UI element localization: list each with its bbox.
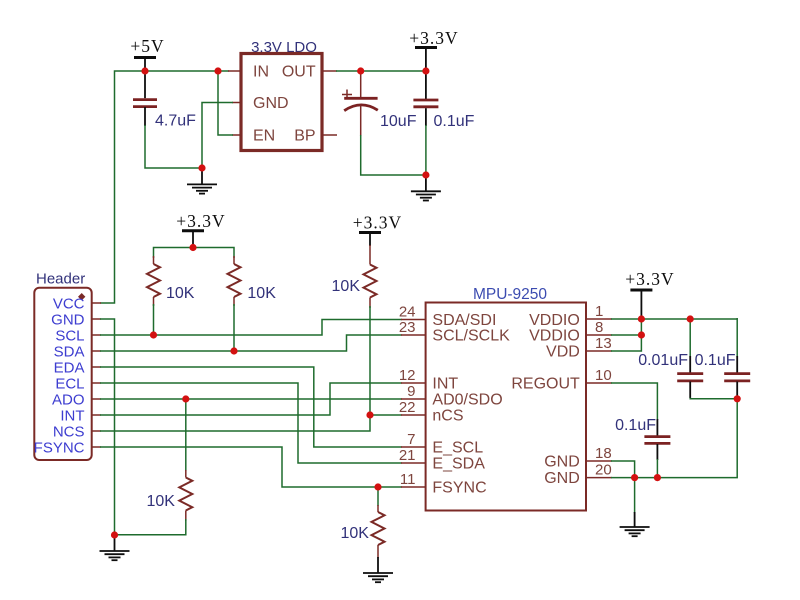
svg-text:+3.3V: +3.3V [176,211,225,231]
power +3.3V (right, VDDIO) [625,269,674,319]
resistor R2 10K (SDA pullup) [228,256,277,306]
svg-text:10K: 10K [341,525,370,542]
wire SCL to MPU pin 24 [100,320,402,336]
node bottom gnd [111,531,118,538]
svg-text:4.7uF: 4.7uF [155,113,196,130]
svg-text:GND: GND [544,470,580,487]
wire GND from header down to bottom ground [100,319,115,535]
capacitor C2 10uF top lead [360,71,362,98]
svg-text:24: 24 [399,304,416,321]
power +3.3V (top, above C3) [409,28,458,71]
svg-text:NCS: NCS [53,423,85,440]
wire VDD pin 13 to rail [611,318,641,351]
MPU right pin stubs [586,319,612,478]
wire ADO to MPU pin 9 [100,398,402,400]
svg-text:+3.3V: +3.3V [353,213,402,233]
svg-text:VDD: VDD [546,344,580,361]
power +3.3V (mid-left pullups) [176,211,225,248]
svg-text:10K: 10K [247,285,276,302]
resistor R4 10K (ADO pulldown) [147,399,193,521]
wire GND rail down to ground [634,478,636,513]
node OUT/C2 [357,67,364,74]
svg-text:Header: Header [36,271,85,288]
node R5/FSYNC [374,483,381,490]
svg-text:10: 10 [595,367,612,384]
svg-text:1: 1 [595,303,603,320]
wire NCS to MPU pin 22 [100,415,402,431]
MPU left pin numbers [399,304,416,489]
wire C6 bottom to GND rail [656,444,658,460]
svg-text:9: 9 [407,383,415,400]
svg-text:0.1uF: 0.1uF [615,417,656,434]
svg-text:10K: 10K [332,278,361,295]
capacitor C5 0.1uF [695,352,751,381]
svg-text:SDA/SDI: SDA/SDI [432,312,496,329]
power +5V [130,36,164,71]
node OUT/C3/+3.3V [422,67,429,74]
svg-text:INT: INT [432,376,458,393]
ground right [620,512,650,536]
svg-text:+5V: +5V [130,36,164,56]
node C2/C3 gnd [422,171,429,178]
svg-text:REGOUT: REGOUT [511,376,580,393]
svg-text:nCS: nCS [432,408,463,425]
IC U2 MPU-9250 box [426,286,586,511]
wire FSYNC to MPU pin 11 [100,447,402,487]
wire LDO OUT to +3.3V node [336,70,426,72]
svg-text:SDA: SDA [54,343,85,360]
node +3.3V pullup rail [189,244,196,251]
wire pullup rail [154,248,235,259]
regulator U1 3.3V LDO box [241,39,322,151]
wire R2 bottom to SDA net [233,304,235,351]
wire R1 bottom to SCL net [153,304,155,335]
wire INT to MPU pin 12 [100,383,402,415]
svg-text:22: 22 [399,399,416,416]
svg-text:VDDIO: VDDIO [529,312,580,329]
svg-text:INT: INT [60,407,84,424]
wire GND pin 18 down to GND rail [611,461,635,478]
svg-text:GND: GND [544,454,580,471]
capacitor C6 0.1uF [615,417,670,443]
pin EN stub [232,134,241,136]
svg-text:+3.3V: +3.3V [409,28,458,48]
wire net +5V: rail from header VCC up and across to LDO IN [100,71,229,303]
svg-text:GND: GND [51,311,85,328]
svg-text:MPU-9250: MPU-9250 [473,286,547,303]
node R1/SCL [150,331,157,338]
node GND18 [631,474,638,481]
svg-text:EN: EN [253,128,275,145]
node VDDIO1/+3.3V [638,315,645,322]
wire LDO GND to ground node [202,103,233,169]
capacitor C5 0.1uF top lead [736,318,738,357]
resistor R5 10K (FSYNC pulldown) [341,487,385,558]
wire VDDIO pin 1 rail [611,318,737,320]
svg-text:10uF: 10uF [380,113,417,130]
header pin stubs [92,303,101,447]
node +5V/C1 [141,67,148,74]
ground below C3 [411,175,441,201]
wire C1 bottom to LDO ground node [144,107,146,126]
svg-text:GND: GND [253,95,289,112]
capacitor C1 top lead [144,71,146,98]
capacitor C4 0.01uF [638,352,703,381]
capacitor C1 4.7uF [133,100,196,130]
svg-text:ADO: ADO [52,391,85,408]
node R2/SDA [230,347,237,354]
svg-text:SCL/SCLK: SCL/SCLK [432,328,510,345]
capacitor C4 0.01uF top lead [689,319,691,357]
wire C2 bottom to ground node [360,106,362,137]
svg-text:+3.3V: +3.3V [625,269,674,289]
wire EDA to MPU pin 7 [100,367,402,447]
wire C4 bottom to gnd rail [689,382,691,399]
svg-text:23: 23 [399,319,416,336]
svg-text:7: 7 [407,431,415,448]
capacitor C2 10uF (polarized) [342,90,417,131]
ground bottom-left [100,535,130,560]
svg-text:EDA: EDA [54,359,85,376]
svg-text:20: 20 [595,462,612,479]
svg-text:0.01uF: 0.01uF [638,352,688,369]
resistor R1 10K (SCL pullup) [147,256,195,306]
svg-text:12: 12 [399,367,416,384]
wire REGOUT pin 10 to C6 [611,383,657,420]
svg-text:BP: BP [294,128,315,145]
svg-text:FSYNC: FSYNC [34,439,85,456]
svg-text:0.1uF: 0.1uF [695,352,736,369]
node C4 bottom [734,395,741,402]
resistor R3 10K (nCS pullup) [332,245,377,308]
node VDDIO8 [638,331,645,338]
wire R4 bottom to ground node [115,519,186,535]
wire LDO EN up to IN rail [218,71,233,135]
pin GND stub [232,102,241,104]
wire VDDIO pin 8 to rail [611,334,641,336]
power +3.3V (mid, nCS pullup) [353,213,402,247]
svg-text:E_SDA: E_SDA [432,456,485,473]
ground below R5 [363,557,393,582]
wire ECL to MPU pin 21 [100,383,402,463]
svg-text:11: 11 [400,471,416,488]
svg-text:FSYNC: FSYNC [432,480,486,497]
svg-text:21: 21 [399,447,416,464]
wire SDA to MPU pin 23 [100,335,402,351]
pin BP stub [322,134,337,136]
header J1 [34,271,92,461]
pin OUT stub [322,70,337,72]
pin IN stub [228,70,241,72]
svg-text:AD0/SDO: AD0/SDO [432,392,502,409]
capacitor C3 top lead [425,71,427,99]
svg-text:8: 8 [595,319,603,336]
svg-text:SCL: SCL [55,327,84,344]
svg-text:13: 13 [595,335,612,352]
svg-text:10K: 10K [147,493,176,510]
MPU left pin stubs [401,320,426,488]
svg-text:OUT: OUT [282,64,316,81]
node R3/nCS [366,411,373,418]
ground below LDO [187,168,217,194]
node C4 top [687,315,694,322]
svg-text:ECL: ECL [55,375,84,392]
svg-text:IN: IN [253,64,269,81]
capacitor C3 0.1uF [413,100,474,130]
node EN/IN [214,67,221,74]
svg-text:18: 18 [595,445,612,462]
node LDO gnd [198,164,205,171]
svg-text:VDDIO: VDDIO [529,328,580,345]
svg-text:VCC: VCC [53,295,85,312]
wire C5 bottom down to GND pins rail [736,382,738,401]
node R4/ADO [182,395,189,402]
wire C3 bottom to ground node [425,108,427,126]
MPU right pin numbers [595,303,612,479]
svg-text:10K: 10K [166,285,195,302]
wire R3 bottom to nCS net [369,306,371,415]
svg-text:E_SCL: E_SCL [432,440,483,457]
svg-text:0.1uF: 0.1uF [434,113,475,130]
node C6 gnd [654,474,661,481]
